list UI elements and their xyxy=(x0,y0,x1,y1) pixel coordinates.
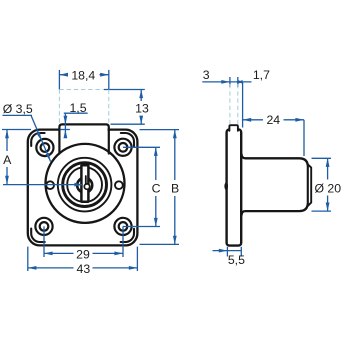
dim 13 line xyxy=(140,90,142,125)
dim 5,5 extension right xyxy=(240,247,242,257)
dim 18,4 line xyxy=(59,74,108,76)
side view centre bump on plate face xyxy=(224,182,228,190)
arrow 43 left xyxy=(28,266,37,270)
arrow 13 bottom xyxy=(139,116,143,125)
dim 13 extension top xyxy=(104,89,145,91)
leader Ø 3,5 xyxy=(31,115,51,161)
svg-text:1,5: 1,5 xyxy=(69,101,86,115)
leader Ø 3,5 underline xyxy=(3,114,33,116)
dim C extension top xyxy=(123,146,160,148)
svg-text:18,4: 18,4 xyxy=(71,68,95,82)
plate inner corner arc top-right xyxy=(121,133,134,146)
lock plate outline (front view) xyxy=(28,130,138,246)
mounting hole bottom-right outer xyxy=(114,218,131,235)
dim 43 extension left xyxy=(27,247,29,271)
arrow B top xyxy=(173,130,177,139)
dim A extension centre xyxy=(3,184,83,186)
dim Ø20 line xyxy=(327,158,329,211)
flange side hole right xyxy=(115,181,123,189)
svg-text:Ø 3,5: Ø 3,5 xyxy=(3,102,33,116)
arrow 1,5 down (tip at tab top) xyxy=(64,116,68,125)
arrow 24 right xyxy=(295,118,304,122)
gap in plate top edge behind tab xyxy=(61,127,108,132)
dashed ext tab left (front) xyxy=(58,90,60,124)
arrow 1,7 left blob xyxy=(238,80,243,84)
dim 1,5 bottom reference stub at plate-top level xyxy=(60,129,70,131)
key profile hook circle xyxy=(84,184,89,189)
plate inner corner arc bottom-left xyxy=(31,229,45,242)
svg-text:13: 13 xyxy=(135,102,149,116)
arrow 18,4 left xyxy=(59,73,68,77)
arrow Ø20 top xyxy=(326,158,330,167)
svg-text:5,5: 5,5 xyxy=(228,253,245,267)
mounting hole bottom-left outer xyxy=(35,218,52,235)
svg-text:C: C xyxy=(152,181,161,195)
dim A extension top xyxy=(2,129,31,131)
svg-text:B: B xyxy=(171,181,179,195)
dim 24 extension left / dim 1,7 line xyxy=(242,82,244,128)
arrow A centre (points right at keyhole centre) xyxy=(74,183,83,187)
dim 43 line xyxy=(28,267,138,269)
svg-text:A: A xyxy=(3,153,12,167)
dim 5,5 line xyxy=(213,250,242,252)
dim 3 / 1,7 line xyxy=(202,81,251,83)
dashed ext tab right (front) xyxy=(108,90,110,124)
arrow 29 left xyxy=(44,252,53,256)
dim 29 line xyxy=(44,252,123,254)
side view top tab xyxy=(229,125,238,131)
dim A line xyxy=(6,130,8,185)
cylinder ring outer xyxy=(58,158,112,212)
dim 13 extension bottom xyxy=(111,123,145,125)
dim 18,4 extension right xyxy=(108,70,110,90)
side view plug rim xyxy=(308,164,311,205)
cylinder plug ring xyxy=(67,167,102,202)
dim 1,5 leader xyxy=(64,113,88,136)
arrow B bottom xyxy=(173,236,177,245)
key profile stem xyxy=(85,176,87,185)
arrow 1,7 right blob xyxy=(238,80,243,84)
svg-text:29: 29 xyxy=(76,247,90,261)
key slot (white fill over boss) xyxy=(81,165,88,202)
svg-text:Ø 20: Ø 20 xyxy=(314,181,341,195)
plate inner corner arc bottom-right xyxy=(121,229,134,242)
gap in plate top edge behind side tab xyxy=(230,127,237,132)
arrow leader 3,5 xyxy=(37,132,42,141)
dashed extension lines (light teal) xyxy=(59,84,237,125)
mounting hole top-right inner xyxy=(119,143,128,152)
dim B line xyxy=(174,130,176,245)
svg-text:43: 43 xyxy=(77,262,91,276)
svg-text:3: 3 xyxy=(203,68,210,82)
dim Ø20 extension top xyxy=(312,157,332,159)
dim Ø20 extension bottom xyxy=(312,210,332,212)
dim 43 extension right xyxy=(136,247,138,271)
dim B extension top xyxy=(140,129,180,131)
mounting hole top-left inner xyxy=(41,143,50,152)
arrow 43 right xyxy=(129,266,138,270)
arrow 13 top xyxy=(139,90,143,99)
dim 3 tick right xyxy=(237,77,239,87)
arrow 1,5 up (tip at plate top) xyxy=(64,130,68,139)
mounting hole top-left outer xyxy=(36,139,53,156)
dim C line xyxy=(155,147,157,226)
arrow C bottom xyxy=(154,218,158,227)
mounting hole bottom-left inner xyxy=(40,222,49,231)
svg-text:24: 24 xyxy=(266,113,280,127)
mounting hole top-right outer xyxy=(114,139,131,156)
dim 24 line xyxy=(243,119,304,121)
flange side hole left xyxy=(46,181,54,189)
arrow leader 3,5 end xyxy=(46,153,51,162)
dim 5,5 extension left xyxy=(226,247,228,257)
arrow A bottom xyxy=(5,176,9,185)
arrow 24 left xyxy=(243,118,252,122)
side view cylinder body xyxy=(242,155,308,215)
dim 3 tick left xyxy=(229,77,231,87)
cylinder face ring (thick) xyxy=(63,163,107,207)
dim 29 extension right xyxy=(122,226,124,257)
housing top tab outline xyxy=(59,124,108,153)
arrow 5,5 (points right at plate left edge) xyxy=(219,249,228,253)
dim 24 extension right xyxy=(303,120,305,156)
arrow Ø20 bottom xyxy=(326,203,330,212)
arrow 29 right xyxy=(114,252,123,256)
arrow A top xyxy=(5,130,9,139)
keyhole boss circle xyxy=(77,178,92,193)
dim B extension bottom xyxy=(140,243,180,245)
arrow C top xyxy=(154,147,158,156)
plate inner corner arc top-left xyxy=(31,133,44,146)
dashed bolt-extended line xyxy=(59,89,104,91)
dashed ext tab left (side) xyxy=(229,84,231,125)
dim C extension bottom xyxy=(123,226,160,228)
side view plate xyxy=(227,129,242,245)
arrow 3 (points right, tip at first tick) xyxy=(221,80,230,84)
arrowheads xyxy=(5,73,329,270)
dashed ext tab right (side) xyxy=(237,84,239,125)
dim 29 extension left xyxy=(43,226,45,257)
arrow 18,4 right xyxy=(100,73,109,77)
svg-text:1,7: 1,7 xyxy=(253,68,270,82)
cylinder housing circle xyxy=(46,144,125,223)
mounting hole bottom-right inner xyxy=(119,222,128,231)
dim 18,4 extension left xyxy=(58,70,60,90)
